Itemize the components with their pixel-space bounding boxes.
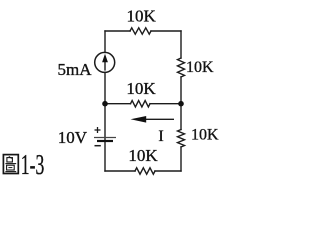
- svg-text:10K: 10K: [128, 146, 158, 165]
- svg-text:10V: 10V: [58, 128, 88, 147]
- svg-text:10K: 10K: [191, 127, 219, 144]
- svg-text:5mA: 5mA: [58, 60, 93, 79]
- svg-text:I: I: [158, 128, 163, 145]
- svg-text:10K: 10K: [127, 7, 157, 26]
- svg-text:10K: 10K: [186, 59, 214, 76]
- svg-text:1-3: 1-3: [21, 150, 45, 181]
- svg-text:10K: 10K: [126, 79, 156, 98]
